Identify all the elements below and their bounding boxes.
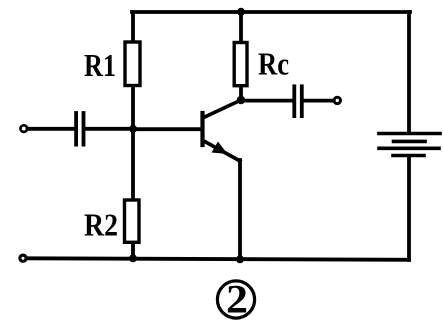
wire right vertical: top rail to battery <box>407 12 411 132</box>
resistor R1 <box>125 42 140 86</box>
node R2 bottom junction <box>129 254 137 262</box>
resistor Rc <box>234 43 247 86</box>
wire battery to bottom rail <box>407 157 411 260</box>
svg-text:2: 2 <box>226 277 248 322</box>
capacitor C1 <box>76 113 83 145</box>
wire input terminal to C1 <box>28 127 75 131</box>
resistor R2 <box>125 200 140 242</box>
battery B1 <box>379 134 440 156</box>
svg-text:R2: R2 <box>84 207 118 243</box>
wire base node down to R2 <box>131 129 135 199</box>
node collector junction <box>237 96 245 104</box>
wire left branch: top rail to R1 <box>131 12 135 41</box>
wire bottom rail <box>27 258 409 260</box>
node emitter bottom junction <box>236 255 244 263</box>
node base junction <box>129 125 137 133</box>
wire collector node to Rc <box>239 87 243 100</box>
wire R1 bottom to base node <box>131 86 135 129</box>
wire emitter vertical <box>238 160 242 259</box>
terminal input <box>21 125 28 132</box>
svg-text:Rc: Rc <box>258 46 289 82</box>
wire C2 to output terminal <box>304 99 333 103</box>
node top rail junction <box>237 8 245 16</box>
wire R2 bottom to bottom rail <box>131 243 135 258</box>
terminal output <box>334 97 340 103</box>
transistor Q1 <box>203 100 242 161</box>
wire base node to transistor base <box>133 127 201 131</box>
svg-text:R1: R1 <box>84 47 116 83</box>
wire top rail <box>132 10 410 14</box>
wire Rc top to top rail <box>239 12 243 42</box>
label figure number 2 circle <box>217 281 254 318</box>
terminal ground-left <box>20 255 26 261</box>
wire collector node to C2 <box>243 99 292 103</box>
wire C1 to base node <box>86 127 134 131</box>
capacitor C2 <box>294 86 302 116</box>
